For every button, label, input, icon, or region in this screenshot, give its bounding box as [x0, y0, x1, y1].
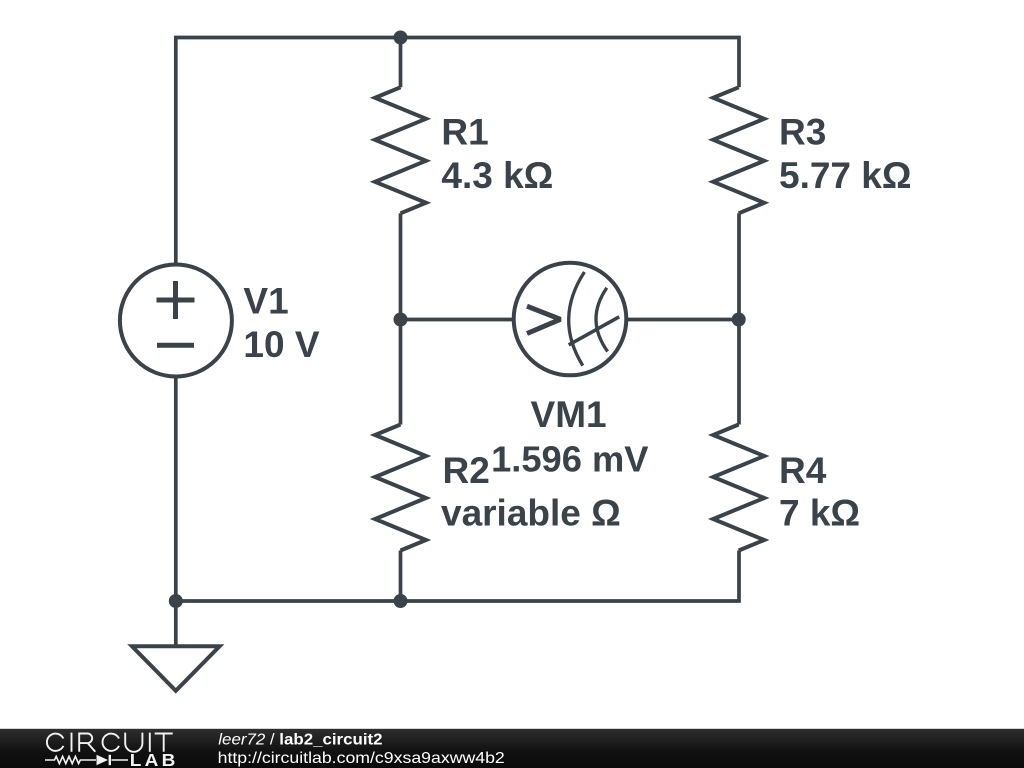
svg-text:R4: R4 — [779, 450, 827, 491]
svg-text:V1: V1 — [243, 281, 288, 322]
svg-text:5.77 kΩ: 5.77 kΩ — [779, 155, 912, 196]
svg-text:R2: R2 — [443, 450, 490, 491]
svg-text:4.3 kΩ: 4.3 kΩ — [441, 155, 553, 196]
svg-text:10 V: 10 V — [243, 324, 319, 365]
svg-text:variable Ω: variable Ω — [441, 493, 621, 534]
svg-text:7 kΩ: 7 kΩ — [779, 493, 860, 534]
svg-text:LAB: LAB — [130, 749, 179, 768]
svg-text:R1: R1 — [441, 112, 488, 153]
svg-text:leer72 / lab2_circuit2: leer72 / lab2_circuit2 — [218, 731, 382, 748]
svg-text:VM1: VM1 — [531, 394, 607, 435]
svg-text:http://circuitlab.com/c9xsa9ax: http://circuitlab.com/c9xsa9axww4b2 — [218, 749, 505, 767]
svg-text:1.596 mV: 1.596 mV — [491, 438, 648, 479]
svg-text:R3: R3 — [779, 112, 826, 153]
